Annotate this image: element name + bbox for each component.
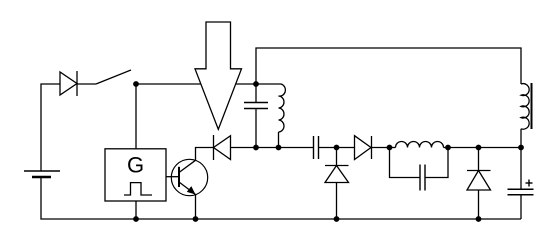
- node B junction dot: [253, 81, 259, 87]
- node Q1 emitter junction dot: [193, 216, 199, 222]
- battery BT1: [24, 171, 60, 177]
- wire node G to node H: [479, 147, 522, 149]
- node F junction dot: [445, 145, 451, 151]
- inductor L1: [256, 84, 285, 148]
- capacitor C1: [244, 84, 268, 148]
- big hollow arrow: [195, 22, 242, 129]
- inductor L3: [390, 142, 449, 148]
- wire top bus node A to node B (behind arrow): [136, 83, 256, 85]
- wire D1 cathode to switch pivot: [77, 83, 96, 85]
- wire battery negative to bottom bus: [41, 177, 136, 219]
- wire C2 to node D: [319, 147, 337, 149]
- node C1 bottom junction dot: [253, 145, 259, 151]
- wire D2 anode to node B2: [231, 147, 279, 149]
- wire node B up and top bus to right: [256, 48, 521, 84]
- switch SW1: [96, 70, 131, 84]
- wire left vertical battery to top bus: [41, 84, 60, 171]
- inductor L2: [521, 84, 529, 148]
- wire generator output to transistor base: [166, 176, 179, 178]
- capacitor C4 polarized: [508, 148, 534, 220]
- capacitor C3: [390, 148, 449, 191]
- node D5 ground junction dot: [476, 216, 482, 222]
- transistor Q1: [171, 159, 207, 195]
- diode D1: [60, 71, 77, 96]
- node H junction dot: [518, 145, 524, 151]
- svg-text:G: G: [127, 153, 144, 178]
- diode D5: [467, 148, 491, 220]
- wire generator bottom to bottom bus: [135, 201, 137, 219]
- diode D2: [214, 135, 231, 160]
- wire D4 cathode to node E: [372, 147, 390, 149]
- diode D4: [355, 136, 372, 160]
- wire emitter down to bottom bus: [195, 195, 197, 220]
- wire node D to D4: [337, 147, 355, 149]
- node E junction dot: [387, 145, 393, 151]
- diode D3: [325, 148, 349, 220]
- wire collector up to mid bus: [196, 148, 214, 161]
- inductor core bar: [531, 83, 533, 129]
- wire node A down to generator: [135, 84, 137, 149]
- wire node F to node G: [448, 147, 479, 149]
- bottom bus wire: [136, 218, 521, 220]
- pulse generator G1: [105, 149, 166, 201]
- node D junction dot: [334, 145, 340, 151]
- node A junction dot: [133, 81, 139, 87]
- wire mid bus to C2: [278, 147, 314, 149]
- node G junction dot: [476, 145, 482, 151]
- node D3 ground junction dot: [334, 216, 340, 222]
- node G1 ground junction dot: [133, 216, 139, 222]
- capacitor C2: [314, 136, 319, 159]
- node L1 bottom junction dot: [276, 145, 282, 151]
